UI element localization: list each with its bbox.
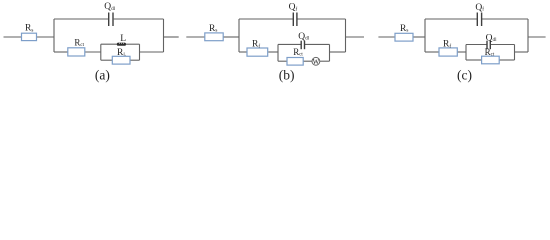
svg-text:Qdl: Qdl — [486, 33, 497, 43]
svg-text:Rf: Rf — [252, 40, 260, 50]
svg-text:Qf: Qf — [475, 3, 484, 13]
svg-text:Rct: Rct — [485, 47, 495, 58]
svg-text:Rs: Rs — [400, 24, 408, 34]
svg-text:(b): (b) — [279, 67, 295, 82]
svg-text:Qf: Qf — [289, 3, 298, 13]
svg-text:L: L — [120, 34, 126, 44]
svg-text:(a): (a) — [95, 67, 110, 82]
svg-text:Rs: Rs — [25, 24, 33, 34]
svg-text:Rs: Rs — [209, 24, 217, 34]
svg-text:Rct: Rct — [74, 38, 84, 49]
svg-text:Rf: Rf — [443, 40, 451, 50]
svg-text:(c): (c) — [457, 67, 472, 82]
svg-text:Qdl: Qdl — [298, 32, 309, 42]
svg-text:Qdl: Qdl — [104, 2, 115, 12]
svg-text:W: W — [313, 58, 320, 66]
